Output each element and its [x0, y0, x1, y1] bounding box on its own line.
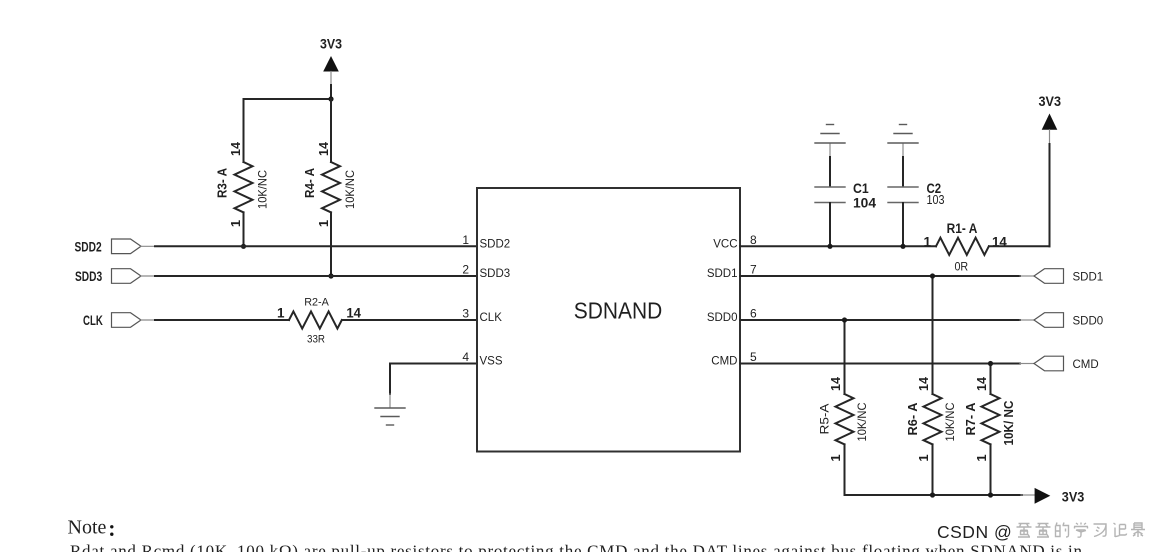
svg-text:CMD: CMD [1073, 359, 1099, 371]
svg-text:SDD2: SDD2 [75, 239, 102, 254]
ground (VSS) [375, 408, 405, 425]
svg-text:3V3: 3V3 [320, 35, 342, 51]
resistor R4 [322, 99, 340, 276]
capacitor C1 [815, 144, 845, 247]
junction R5 / SDD0 [842, 317, 847, 322]
ground (inverted, above C1) [815, 125, 845, 144]
svg-text:3: 3 [462, 307, 469, 321]
svg-text:SDD1: SDD1 [1073, 271, 1104, 283]
svg-text:1: 1 [277, 306, 285, 321]
resistor R7 [982, 364, 1000, 496]
svg-text:103: 103 [927, 193, 945, 207]
resistor R2 [289, 311, 342, 328]
wire net SDD2 [155, 245, 477, 247]
junction top rail / 3V3 [328, 96, 333, 101]
capacitor C2 [888, 144, 918, 247]
svg-text:VSS: VSS [480, 356, 503, 368]
watermark CJK glyphs (hand-drawn) [1017, 523, 1146, 538]
junction R7 / rail [988, 492, 993, 497]
wire VSS [390, 364, 477, 395]
svg-text:6: 6 [750, 307, 757, 321]
power symbol 3V3 (top left) [320, 35, 342, 99]
junction R6 / rail [930, 492, 935, 497]
svg-text:14: 14 [916, 376, 931, 391]
power symbol 3V3 (top right) [1039, 94, 1062, 246]
svg-text:14: 14 [228, 141, 243, 156]
svg-text:R6- A: R6- A [905, 402, 920, 436]
svg-text:1: 1 [462, 233, 469, 247]
wire net CMD [740, 363, 1020, 365]
wire R2 to chip [342, 319, 477, 321]
svg-text:R5-A: R5-A [820, 403, 832, 434]
op-amp? no: IC U1 SDNAND [477, 188, 740, 452]
svg-text:SDD2: SDD2 [480, 238, 511, 250]
svg-text:14: 14 [316, 141, 331, 156]
connector SDD1 (right) [1020, 269, 1103, 284]
svg-text:14: 14 [346, 306, 361, 321]
svg-text:CSDN @: CSDN @ [937, 522, 1012, 542]
svg-text:1: 1 [923, 234, 931, 249]
resistor R6 [924, 276, 942, 495]
svg-text:10K/NC: 10K/NC [343, 170, 357, 209]
svg-text:10K/NC: 10K/NC [255, 170, 269, 209]
wire bottom 3V3 rail [845, 494, 1023, 496]
svg-text:R1- A: R1- A [947, 221, 978, 236]
resistor R1 [936, 238, 989, 255]
svg-text:SDD0: SDD0 [1073, 315, 1104, 327]
svg-text:7: 7 [750, 263, 757, 277]
ground (inverted, above C2) [888, 125, 918, 144]
junction R3 / SDD2 [241, 244, 246, 249]
svg-text:R3- A: R3- A [215, 167, 230, 198]
svg-text:2: 2 [462, 263, 469, 277]
junction R6 / SDD1 [930, 273, 935, 278]
svg-text:4: 4 [462, 350, 469, 364]
svg-text:1: 1 [228, 220, 243, 227]
junction R7 / CMD [988, 361, 993, 366]
power symbol 3V3 (bottom right, arrow) [1021, 488, 1084, 504]
svg-text:1: 1 [974, 454, 989, 461]
svg-text:R2-A: R2-A [304, 297, 329, 309]
svg-text:8: 8 [750, 233, 757, 247]
wire top rail R3/R4 [244, 98, 332, 100]
connector SDD3 (left) [75, 269, 156, 284]
connector SDD2 (left) [75, 239, 157, 254]
junction C1 / VCC [827, 244, 832, 249]
connector CLK (left) [83, 313, 156, 328]
svg-text:SDD0: SDD0 [707, 312, 738, 324]
wire net SDD3 [155, 275, 477, 277]
svg-text:Rdat and Rcmd (10K–100 kΩ) are: Rdat and Rcmd (10K–100 kΩ) are pull-up r… [70, 542, 1083, 552]
svg-text:SDNAND: SDNAND [574, 298, 663, 324]
svg-text:VCC: VCC [713, 238, 737, 250]
wire CLK to R2 [155, 319, 289, 321]
wire net SDD1 [740, 275, 1020, 277]
svg-text:SDD1: SDD1 [707, 268, 738, 280]
wire R1 to 3V3 [989, 245, 1050, 247]
svg-text:10K/NC: 10K/NC [855, 402, 869, 441]
svg-text:0R: 0R [954, 261, 968, 273]
svg-text:1: 1 [828, 454, 843, 461]
svg-text:10K/ NC: 10K/ NC [1001, 400, 1016, 446]
svg-text:1: 1 [916, 454, 931, 461]
svg-text:104: 104 [853, 195, 876, 211]
watermark CSDN [937, 522, 1012, 542]
wire VCC net [740, 245, 936, 247]
svg-text:R7- A: R7- A [963, 402, 978, 436]
svg-text:33R: 33R [307, 333, 325, 345]
svg-text:CMD: CMD [711, 356, 737, 368]
connector CMD (right) [1020, 356, 1099, 371]
junction C2 / VCC [900, 244, 905, 249]
svg-text:10K/NC: 10K/NC [943, 402, 957, 441]
svg-text:CLK: CLK [480, 312, 503, 324]
svg-text:14: 14 [828, 376, 843, 391]
svg-text:Note: Note [68, 517, 107, 539]
svg-text:14: 14 [974, 376, 989, 391]
resistor R5 [836, 320, 854, 495]
junction R4 / SDD3 [328, 273, 333, 278]
resistor R3 [235, 99, 253, 246]
svg-text:SDD3: SDD3 [480, 268, 511, 280]
wire net SDD0 [740, 319, 1020, 321]
svg-text:3V3: 3V3 [1039, 94, 1062, 109]
svg-text:R4- A: R4- A [302, 167, 317, 198]
svg-text:5: 5 [750, 350, 757, 364]
svg-text:SDD3: SDD3 [75, 269, 103, 284]
svg-text:CLK: CLK [83, 313, 103, 328]
svg-text:C1: C1 [853, 180, 869, 196]
svg-text:3V3: 3V3 [1062, 488, 1085, 504]
connector SDD0 (right) [1020, 313, 1103, 328]
svg-text:1: 1 [316, 220, 331, 227]
